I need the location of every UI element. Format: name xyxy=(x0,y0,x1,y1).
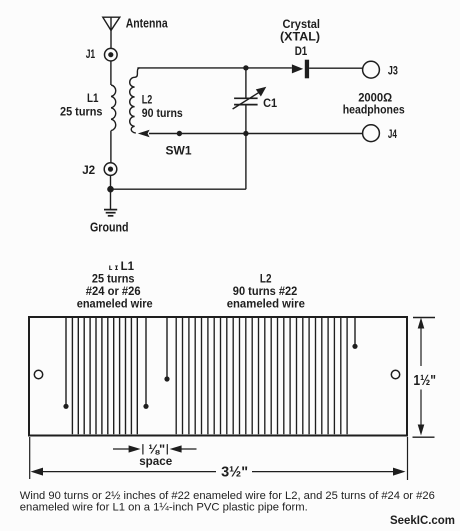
svg-text:J1: J1 xyxy=(86,47,96,61)
svg-text:90 turns: 90 turns xyxy=(142,106,183,120)
svg-text:J3: J3 xyxy=(388,64,398,78)
svg-text:L1: L1 xyxy=(87,91,99,105)
L1 winding turns xyxy=(72,318,137,434)
svg-text:Antenna: Antenna xyxy=(126,17,169,31)
switch SW1 wiper arrow xyxy=(138,130,150,137)
svg-text:C1: C1 xyxy=(263,96,277,110)
arrowhead 1/8 right xyxy=(170,445,182,452)
svg-text:enameled wire for L1 on a 1¼-i: enameled wire for L1 on a 1¼-inch PVC pl… xyxy=(20,501,308,513)
svg-text:25 turns: 25 turns xyxy=(92,273,135,285)
connector J4 xyxy=(363,125,380,142)
svg-text:Ground: Ground xyxy=(90,221,129,235)
svg-text:SeekIC.com: SeekIC.com xyxy=(390,513,455,527)
arrowhead 1.5 up xyxy=(418,318,425,329)
dimension 1/8 inch space xyxy=(113,444,197,454)
svg-text:1½": 1½" xyxy=(413,373,436,389)
L2 end lead wire xyxy=(352,318,357,349)
svg-text:(XTAL): (XTAL) xyxy=(280,30,320,44)
label coil L2 header xyxy=(227,273,305,310)
ground xyxy=(104,210,117,216)
connector J2 xyxy=(104,163,117,176)
antenna xyxy=(103,17,120,30)
junction SW1 tap xyxy=(177,131,182,136)
wire J2 to ground junction xyxy=(110,175,112,189)
svg-text:L2: L2 xyxy=(260,273,272,285)
arrowhead 3.5 left xyxy=(31,468,44,476)
arrowhead 1/8 left xyxy=(129,445,141,452)
wire junction to ground xyxy=(110,189,112,209)
L2 start lead wire xyxy=(164,318,169,382)
L2 winding turns xyxy=(176,318,347,434)
label coil L1 header xyxy=(77,261,153,311)
svg-text:90 turns #22: 90 turns #22 xyxy=(233,286,297,298)
capacitor C1 xyxy=(233,68,267,134)
wire J1 to L1 xyxy=(110,61,112,85)
arrowhead 1.5 down xyxy=(418,425,425,436)
wire antenna to J1 xyxy=(110,30,112,48)
connector J3 xyxy=(363,61,380,78)
wire diode to J3 xyxy=(309,67,362,69)
junction ground node xyxy=(107,186,114,193)
svg-text:#24 or #26: #24 or #26 xyxy=(86,286,141,298)
svg-text:J2: J2 xyxy=(82,163,95,177)
wire C1 down xyxy=(245,134,247,190)
svg-text:SW1: SW1 xyxy=(166,144,192,158)
hole left xyxy=(34,370,42,378)
wire top: L2 to diode xyxy=(137,67,292,69)
dimension 1 1/2 inch xyxy=(413,318,436,438)
svg-text:space: space xyxy=(139,454,172,468)
svg-text:enameled wire: enameled wire xyxy=(77,298,153,310)
svg-text:J4: J4 xyxy=(388,127,397,141)
L1 start lead wire xyxy=(63,318,68,409)
dimension 3 1/2 inch xyxy=(30,437,408,480)
arrowhead 3.5 right xyxy=(393,468,406,476)
inductor L2 xyxy=(130,68,140,133)
connector J1 xyxy=(105,48,118,61)
diode D1 xyxy=(292,60,309,79)
hole right xyxy=(391,370,399,378)
svg-text:Wind 90 turns or 2½ inches of: Wind 90 turns or 2½ inches of #22 enamel… xyxy=(20,490,435,502)
wire L1 to J2 xyxy=(110,131,112,163)
wire SW1 to J4 xyxy=(149,133,363,135)
svg-text:3½": 3½" xyxy=(221,465,248,481)
junction top of C1 xyxy=(243,65,248,70)
svg-text:ʟ ɪ L1: ʟ ɪ L1 xyxy=(109,261,135,273)
svg-text:25 turns: 25 turns xyxy=(60,105,103,119)
wire bottom return xyxy=(111,188,246,190)
svg-text:headphones: headphones xyxy=(343,103,405,117)
svg-text:L2: L2 xyxy=(142,92,153,106)
svg-text:D1: D1 xyxy=(295,44,308,58)
inductor L1 xyxy=(111,85,116,131)
junction C1 bottom xyxy=(243,131,248,136)
coil form body xyxy=(29,317,407,436)
L1 end lead wire xyxy=(143,318,148,409)
svg-text:enameled wire: enameled wire xyxy=(227,298,305,310)
